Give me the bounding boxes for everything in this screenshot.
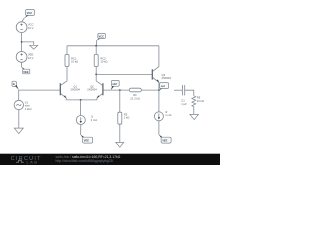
net flag in [12,81,19,90]
VCC rail wire [67,45,159,47]
wire (output filter left) [174,89,182,91]
wire [95,40,98,46]
capacitor C1 [181,85,187,106]
voltage source V_VEE [16,52,33,63]
svg-text:2N3904: 2N3904 [162,76,172,80]
svg-text:in: in [13,82,16,86]
wire [95,67,97,81]
svg-text:VEE: VEE [162,139,167,143]
ground (supply) [30,45,38,49]
wire [18,110,20,128]
ground (V1) [14,128,23,134]
svg-text:1 mA: 1 mA [165,113,171,117]
wire [158,121,160,135]
svg-text:10 kΩ: 10 kΩ [197,99,204,103]
wire [185,90,194,96]
node junction [95,74,97,76]
net flag out [159,83,169,91]
wire (input corner) [19,90,60,100]
svg-text:C1: C1 [181,98,185,102]
resistor RC1 [65,54,78,66]
svg-text:10 V: 10 V [28,56,34,60]
svg-text:VCC: VCC [27,11,33,15]
svg-text:VEE: VEE [28,53,34,57]
wire [119,90,121,112]
svg-text:1 kHz: 1 kHz [25,107,33,111]
svg-text:VEE: VEE [84,139,89,143]
wire [66,46,68,55]
node junction [21,41,23,43]
svg-text:VEE: VEE [23,70,28,74]
voltage source V1 (sine) [14,100,32,111]
svg-text:10 kΩ: 10 kΩ [100,59,107,63]
wire [22,18,25,22]
wire [119,124,121,142]
wire [21,62,23,67]
wire [22,42,34,45]
wire [80,125,82,135]
node junction [95,45,97,47]
wire [21,33,23,52]
wire [80,100,82,116]
ground (R5) [116,142,124,147]
resistor R5 [118,112,130,124]
svg-text:Q3: Q3 [162,73,166,77]
svg-text:2 mA: 2 mA [91,118,97,122]
wire [141,89,159,91]
ground (R8) [190,114,199,119]
transistor Q1 [60,81,80,100]
svg-text:LAB: LAB [27,161,39,165]
svg-text:10 V: 10 V [28,26,34,30]
resistor RF [129,88,141,100]
svg-text:1 kΩ: 1 kΩ [124,116,130,120]
current source I2 [154,110,171,121]
svg-text:21.3 kΩ: 21.3 kΩ [130,96,139,100]
svg-text:out: out [161,84,165,88]
wire [193,107,195,115]
net flag VEE (left supply) [21,67,30,74]
wire [158,90,160,112]
resistor RC2 [94,54,107,66]
net flag VEE (under I1) [80,134,92,143]
svg-text:http://circuitlab.com/c/666qgn: http://circuitlab.com/c/666qgnykybg23/ [56,159,114,163]
transistor Q2 [87,81,103,100]
net flag VCC (rail) [97,33,106,40]
net flag VCC (left supply) [24,10,34,19]
wire (Q2 base to RF) [103,89,129,91]
wire (Q3 base) [96,73,152,75]
svg-text:10 kΩ: 10 kΩ [71,59,78,63]
voltage source V_VCC [16,22,33,33]
node junction (R5 tap) [119,89,121,91]
wire [95,46,97,55]
resistor R8 [192,96,204,107]
svg-text:vb2: vb2 [112,82,117,86]
svg-text:1 µF: 1 µF [181,102,187,106]
emitter rail wire [66,99,97,101]
node junction [80,99,82,101]
net flag vb2 [111,80,120,90]
svg-text:2N3904: 2N3904 [70,88,80,92]
svg-text:2N3904: 2N3904 [87,88,97,92]
footer bar [0,154,220,165]
wire [66,67,68,81]
svg-text:VCC: VCC [28,23,34,27]
svg-text:VCC: VCC [99,35,105,39]
current source I1 [76,114,97,124]
net flag VEE (under I2) [159,134,172,143]
transistor Q3 [152,46,171,90]
node junction [158,89,160,91]
